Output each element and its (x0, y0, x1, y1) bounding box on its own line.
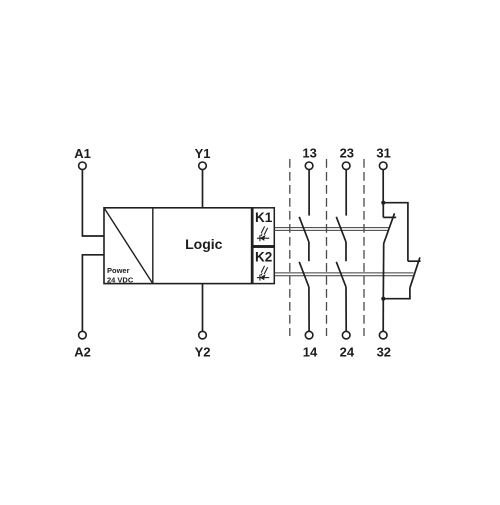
terminal 24 (340, 331, 355, 359)
contact K1 NO (23) blade (336, 217, 346, 242)
terminal A2 (74, 331, 91, 359)
contact K1 NC (31-32) blade (384, 213, 395, 243)
terminal 14 (303, 331, 318, 359)
wire A1 to power input (82, 170, 104, 236)
svg-text:Y2: Y2 (195, 345, 211, 360)
contact K2 NC (31-32) blade (410, 257, 420, 287)
contact K1 NO (13) blade (299, 217, 309, 242)
svg-text:Logic: Logic (185, 236, 223, 252)
svg-text:A1: A1 (74, 146, 91, 161)
wire from 31 to junction (382, 170, 384, 203)
wire to 14 (308, 287, 310, 331)
mechanical link dashed line 1 (289, 159, 291, 336)
contact K1 NC (31-32) seat (382, 203, 384, 218)
terminal 13 (302, 146, 316, 170)
svg-text:32: 32 (377, 345, 391, 360)
terminal Y2 (195, 331, 211, 359)
svg-text:K1: K1 (255, 210, 273, 225)
wire left blade down (382, 244, 384, 299)
terminal 23 (340, 146, 354, 170)
K1 actuation line (double) (274, 228, 388, 231)
svg-text:K2: K2 (255, 249, 272, 264)
svg-text:Y1: Y1 (195, 146, 211, 161)
wire from 13 (308, 170, 310, 216)
wire to 32 (382, 299, 384, 331)
wire A2 to power input (82, 255, 104, 331)
relay coil K1 (253, 208, 274, 246)
mechanical link dashed line 3 (363, 159, 365, 336)
wire to 24 (345, 287, 347, 331)
mechanical link dashed line 2 (326, 159, 328, 336)
svg-text:A2: A2 (74, 345, 91, 360)
LED indicator of K1 (257, 226, 269, 241)
terminal 32 (377, 331, 391, 359)
terminal A1 (74, 146, 91, 170)
power supply section (104, 208, 153, 285)
svg-text:24: 24 (340, 345, 355, 360)
contact K2 NO (24) blade (336, 262, 346, 287)
wire branch to right contact (383, 203, 408, 262)
LED indicator of K2 (257, 266, 269, 281)
terminal Y1 (195, 146, 211, 170)
terminal 31 (376, 146, 390, 170)
logic block U1 (104, 208, 252, 284)
svg-text:Power: Power (107, 266, 130, 275)
svg-text:23: 23 (340, 146, 354, 161)
wire between contacts 13-14 (308, 242, 310, 261)
contact K2 NC (31-32) seat (408, 260, 421, 262)
wire from right blade to junction bottom (383, 288, 410, 299)
wire Y2 to logic block (202, 284, 204, 332)
contact K2 NO (14) blade (299, 262, 309, 287)
node junction bottom (381, 297, 385, 301)
wire from 23 (345, 170, 347, 216)
wire between contacts 23-24 (345, 242, 347, 261)
node junction top (381, 201, 385, 205)
svg-text:14: 14 (303, 345, 318, 360)
relay coil K2 (253, 247, 274, 283)
wire Y1 to logic block (202, 170, 204, 208)
K2 actuation line (double) (274, 273, 413, 276)
svg-text:24 VDC: 24 VDC (107, 275, 134, 284)
svg-text:13: 13 (302, 146, 316, 161)
svg-text:31: 31 (376, 146, 390, 161)
